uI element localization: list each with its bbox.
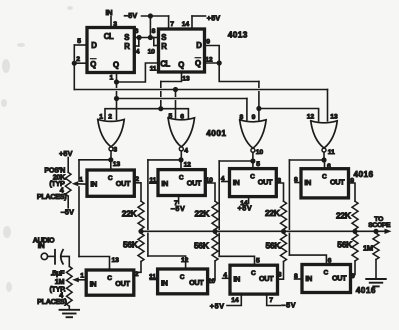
smudge marks (scan artifacts) (1, 6, 73, 292)
wire bus Qbar1 horizontal (74, 89, 327, 91)
svg-text:D: D (196, 41, 202, 50)
svg-text:11: 11 (149, 177, 156, 184)
svg-text:4013: 4013 (228, 29, 248, 39)
svg-text:IN: IN (304, 178, 311, 187)
svg-text:IN: IN (161, 278, 168, 287)
wire G4 out route to SW8 control (col 4) (289, 159, 324, 161)
node bus 1M tap (373, 229, 378, 234)
wire -5V to pin 7 (142, 15, 169, 17)
svg-text:–5V: –5V (171, 204, 186, 213)
resistor 22K #3 (281, 201, 287, 229)
wire G1 out to SW1 control pin 13 (110, 160, 112, 170)
wire Qbar2 to gate3 input 9 (258, 109, 260, 120)
analog switch SW3 (4016) box (230, 169, 277, 197)
resistor 22K #1 (138, 201, 144, 229)
wire G3 out to SW3 control pin 5 (252, 161, 254, 169)
svg-text:14: 14 (182, 21, 190, 28)
SW7 pin 7 to -5V (267, 294, 281, 305)
svg-text:2: 2 (135, 271, 139, 278)
svg-text:9: 9 (206, 38, 210, 45)
svg-text:7: 7 (269, 297, 273, 304)
wire Q2 vertical with crossing gaps (160, 82, 162, 88)
svg-text:C: C (250, 174, 255, 181)
svg-text:C: C (179, 175, 184, 182)
svg-text:R: R (161, 42, 167, 51)
svg-text:C: C (108, 175, 113, 182)
nor-gate G1 (4001 1/4) (98, 119, 124, 146)
wire G3 out route to SW7 control (col 3) (219, 160, 253, 162)
svg-text:D: D (91, 41, 97, 50)
svg-text:IN: IN (90, 179, 97, 188)
svg-text:3: 3 (278, 272, 282, 279)
svg-text:OUT: OUT (330, 178, 345, 187)
svg-text:8: 8 (294, 176, 298, 183)
svg-text:5: 5 (169, 113, 173, 120)
svg-text:11: 11 (328, 149, 335, 156)
resistor 56K #4 (352, 233, 358, 261)
wire G1 out route to SW5 control (col 1) (79, 159, 111, 161)
node G2 output junction (178, 157, 183, 162)
svg-text:OUT: OUT (332, 274, 347, 283)
audio pot wiper arrow to SW5 IN pin 1 (72, 277, 79, 282)
wire summing bus to scope (141, 230, 386, 232)
node Q2 on gate input bracket (158, 106, 163, 111)
wire Q1 to FF2 clock pin 11 (117, 63, 159, 82)
wire S/R of FF1 tied to -5V rail (134, 37, 150, 39)
svg-text:5: 5 (77, 38, 81, 45)
svg-text:4016: 4016 (354, 169, 374, 179)
resistor 22K #2 (212, 201, 218, 229)
svg-text:+5V: +5V (207, 13, 221, 22)
svg-text:IN: IN (106, 8, 113, 17)
svg-text:4001: 4001 (206, 128, 226, 138)
svg-text:C: C (251, 270, 256, 277)
svg-text:4: 4 (223, 272, 227, 279)
wire +5V to position pot (67, 158, 69, 173)
svg-text:9: 9 (351, 273, 355, 280)
svg-text:10: 10 (148, 48, 156, 55)
SW4 IN pin 8 stub (295, 182, 301, 184)
wire to FF2 pin 8 and pin 10 (150, 37, 158, 39)
wire bus Q1 horizontal (117, 98, 247, 100)
resistor 22K #4 (352, 201, 358, 229)
svg-text:OUT: OUT (259, 274, 274, 283)
svg-text:12: 12 (184, 162, 192, 169)
svg-text:14: 14 (231, 297, 239, 304)
flip-flop FF2 (4013 half) box (159, 29, 205, 72)
svg-text:8: 8 (240, 114, 244, 121)
svg-text:56K: 56K (194, 241, 210, 251)
svg-text:3: 3 (113, 147, 117, 154)
svg-text:OUT: OUT (258, 178, 273, 187)
svg-text:+5V: +5V (238, 203, 253, 212)
SW2 IN pin 11 stub (150, 182, 158, 184)
svg-text:13: 13 (113, 161, 121, 168)
svg-text:5: 5 (256, 257, 260, 264)
wire G4 out to SW4 control pin 6 (324, 160, 326, 169)
wire audio pot to ground (68, 306, 70, 309)
node FF2 D-Qbar tie (217, 60, 222, 65)
SW3 IN pin 4 stub (222, 181, 230, 183)
svg-text:–5V: –5V (61, 207, 74, 216)
svg-text:7: 7 (170, 21, 174, 28)
svg-text:6: 6 (327, 163, 331, 170)
svg-text:4: 4 (184, 148, 188, 155)
resistor 56K #3 (281, 233, 287, 261)
svg-text:4: 4 (221, 175, 225, 182)
svg-text:13: 13 (112, 257, 120, 264)
svg-text:SCOPE: SCOPE (368, 222, 391, 229)
wire -5V down to S/R rail (149, 16, 151, 38)
svg-text:56K: 56K (337, 240, 353, 250)
analog switch SW7 (4016) box (230, 265, 278, 294)
svg-text:–5V: –5V (124, 11, 137, 20)
SW6 IN pin 11 stub (150, 279, 158, 281)
svg-text:22K: 22K (336, 210, 352, 220)
svg-text:10: 10 (208, 278, 216, 285)
resistor 56K #2 (212, 233, 218, 261)
svg-text:(TYP.: (TYP. (49, 285, 65, 294)
wire FF1 Qbar(2) to D(5) (74, 44, 87, 46)
wire bus Qbar1 down to gate4 input 13 (327, 90, 329, 121)
nor-gate G3 (4001 3/4) (240, 120, 266, 148)
svg-text:Q: Q (178, 60, 184, 69)
svg-text:S: S (161, 33, 166, 42)
svg-text:C: C (322, 174, 327, 181)
svg-text:IN: IN (233, 275, 240, 284)
svg-text:4016: 4016 (356, 285, 376, 295)
node G1 output junction (108, 157, 113, 162)
svg-text:–5V: –5V (282, 301, 297, 310)
node S-R to -5V (148, 35, 153, 40)
nor-gate G2 (4001 2/4) (168, 118, 194, 147)
svg-text:11: 11 (149, 273, 156, 280)
wire pot to -5V (67, 196, 69, 208)
resistor 56K #1 (138, 233, 144, 261)
svg-text:1: 1 (110, 75, 114, 82)
wire FF1 Q pin 1 stub (116, 73, 118, 83)
analog switch SW6 (4016) box (158, 269, 208, 294)
wire Qbar2 vertical with gap at bus1 (258, 82, 260, 88)
nor-gate G4 (4001 4/4) (311, 121, 337, 148)
svg-text:2: 2 (76, 56, 80, 63)
capacitor .5uF (54, 250, 56, 264)
svg-text:+5V: +5V (59, 149, 73, 158)
svg-text:R: R (124, 42, 130, 51)
wire gate1/gate2 input bracket from Q2 (105, 109, 188, 120)
node Qbar2 junction (256, 106, 261, 111)
svg-text:Q: Q (90, 60, 96, 69)
node -5V junction (148, 13, 153, 18)
svg-text:12: 12 (307, 114, 315, 121)
svg-text:CL: CL (160, 59, 170, 68)
svg-text:9: 9 (252, 114, 256, 121)
svg-text:12: 12 (181, 257, 189, 264)
wire G4 output (323, 152, 325, 160)
svg-text:6: 6 (135, 28, 139, 35)
SW8 IN pin 8 stub (295, 278, 303, 280)
potentiometer 1M audio (67, 266, 73, 306)
svg-text:22K: 22K (265, 208, 281, 218)
node bus 22K/56K #3 (281, 229, 286, 234)
svg-text:56K: 56K (266, 240, 282, 250)
svg-text:IN: IN (305, 274, 312, 283)
wire G2 out to SW2 control pin 12 (180, 160, 182, 170)
wire Qbar1 down to bus (73, 63, 75, 89)
node bus 22K/56K #4 (352, 229, 357, 234)
ground (audio) (60, 309, 80, 311)
svg-text:10: 10 (256, 149, 264, 156)
node bus 22K/56K #1 (138, 229, 143, 234)
svg-text:4: 4 (136, 48, 140, 55)
node G4 output junction (321, 157, 326, 162)
node bus 22K/56K #2 (212, 229, 217, 234)
wire G3 output (252, 152, 254, 161)
svg-text:C: C (323, 270, 328, 277)
node Q1 junction (114, 79, 119, 84)
svg-text:+5V: +5V (210, 302, 225, 311)
svg-text:CL: CL (104, 32, 114, 41)
ground (scope side) (366, 278, 386, 280)
svg-text:OUT: OUT (189, 278, 204, 287)
node bus2 start (114, 96, 119, 101)
node FF1 Qbar junction (72, 61, 77, 66)
svg-text:IN: IN (38, 241, 45, 250)
potentiometer 20K POS'N (65, 172, 71, 196)
svg-text:IN: IN (233, 178, 240, 187)
wire G1 output (110, 151, 112, 160)
svg-text:IN: IN (90, 279, 97, 288)
svg-text:OUT: OUT (115, 279, 130, 288)
svg-text:1M: 1M (363, 243, 373, 252)
svg-text:13: 13 (182, 76, 190, 83)
svg-text:56K: 56K (123, 240, 139, 250)
svg-text:PLACES): PLACES) (37, 192, 67, 201)
SW2 pin 7 to -5V (178, 197, 180, 204)
analog switch SW2 (4016) box (158, 170, 205, 196)
wire Qbar2 route down and right (219, 63, 259, 82)
svg-text:2: 2 (108, 114, 112, 121)
svg-text:8: 8 (294, 273, 298, 280)
svg-text:PLACES): PLACES) (37, 297, 67, 306)
wire G2 out route to SW6 control (col 2) (148, 159, 181, 161)
svg-text:5: 5 (256, 161, 260, 168)
wire FF2 D pin 9 to Qbar pin 12 (205, 46, 220, 64)
svg-text:C: C (107, 275, 112, 282)
node FF1 S-R tie (137, 35, 142, 40)
svg-text:11: 11 (150, 66, 157, 73)
wire gate2 input 5 from bus1 (gap at bus2) (175, 90, 177, 97)
analog switch SW8 (4016) box (302, 265, 351, 293)
svg-text:22K: 22K (195, 208, 211, 218)
svg-text:Q: Q (195, 59, 201, 68)
svg-text:OUT: OUT (187, 179, 202, 188)
wire IN to pin 3 (FF1 clock) (110, 17, 112, 28)
analog switch SW1 (4016) box (87, 170, 134, 196)
wire Q1 down to bus2 (gap at bus1 crossing) (116, 82, 118, 87)
SW3 pin 14 to +5V (248, 197, 250, 204)
analog switch SW5 (4016) box (86, 270, 134, 295)
svg-text:C: C (180, 274, 185, 281)
pot wiper arrow to SW1 IN pin 1 (72, 181, 79, 186)
svg-text:13: 13 (330, 114, 338, 121)
svg-text:OUT: OUT (116, 179, 131, 188)
svg-text:22K: 22K (122, 208, 138, 218)
svg-text:S: S (124, 33, 129, 42)
wire pin 14 to +5V (191, 16, 193, 29)
wire G2 output (180, 151, 182, 160)
svg-text:1: 1 (79, 176, 83, 183)
analog switch SW4 (4016) box (301, 169, 349, 198)
wire FF2 Q pin 13 route (161, 72, 182, 82)
svg-text:IN: IN (161, 179, 168, 188)
flip-flop FF1 (4013 half) box (87, 28, 134, 73)
node G3 output junction (250, 158, 255, 163)
node bus1 to gate2 input 5 (173, 87, 178, 92)
svg-text:1: 1 (99, 114, 103, 121)
wire bus Q1 down to gate3 input 8 (246, 99, 248, 120)
svg-text:6: 6 (180, 113, 184, 120)
audio input terminal (41, 253, 47, 259)
SW7 IN pin 4 stub (223, 277, 231, 279)
svg-text:1: 1 (80, 272, 84, 279)
svg-text:Q: Q (113, 60, 119, 69)
wire capacitor to audio pot (62, 256, 70, 266)
SW7 pin 14 to +5V (227, 294, 241, 305)
wire terminal to capacitor (48, 255, 54, 257)
resistor 1M to ground at scope (373, 233, 379, 259)
wire Qbar2 to gate4 input 12 (259, 109, 319, 121)
svg-text:8: 8 (152, 28, 156, 35)
